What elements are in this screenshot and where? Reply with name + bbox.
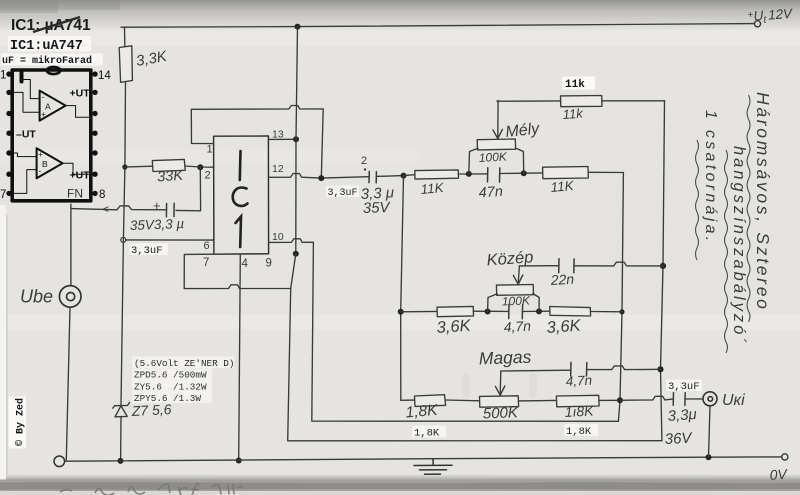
wire Mely pot right lead — [515, 148, 523, 173]
svg-text:35V3,3 µ: 35V3,3 µ — [130, 216, 185, 233]
wire pin1 feedback loop — [191, 106, 323, 179]
svg-text:1,8K: 1,8K — [414, 428, 440, 440]
node Mely pot right — [521, 170, 527, 176]
resistor 3,3K — [119, 27, 132, 167]
underline wavy 2 — [725, 150, 728, 353]
underline wavy 3 — [696, 140, 699, 260]
wire right rail — [661, 101, 665, 441]
svg-text:3,6K: 3,6K — [436, 317, 472, 337]
op-amp A output wire — [66, 106, 91, 118]
resistor 11K Mely left — [415, 170, 459, 179]
node pin12 junction — [318, 175, 324, 181]
wire pin9 stub — [291, 254, 296, 289]
zener note line 2 — [132, 369, 212, 381]
svg-text:3,3uF: 3,3uF — [668, 381, 700, 393]
svg-text:1,8K: 1,8K — [566, 426, 592, 438]
op-amp B output wire — [63, 163, 91, 174]
svg-text:13: 13 — [272, 129, 284, 141]
svg-text:+: + — [38, 150, 43, 159]
node Kozep pot right — [536, 308, 542, 314]
svg-text:7: 7 — [0, 189, 6, 201]
wire pin12 output — [269, 174, 370, 179]
wire 22n branch — [519, 265, 558, 267]
wire 22n to right rail — [574, 262, 663, 266]
printed labels — [9, 77, 703, 449]
wire Mely pot left lead — [469, 148, 478, 174]
wire Ube to bus — [66, 307, 70, 460]
svg-text:Közép: Közép — [486, 248, 534, 269]
terminal Uki — [703, 392, 717, 406]
svg-text:3,3μ: 3,3μ — [667, 406, 697, 425]
bottom edge scribbles — [60, 483, 243, 495]
capacitor 4,7n Kozep — [509, 304, 523, 318]
svg-text:4,7n: 4,7n — [503, 318, 531, 335]
node Magas right — [617, 397, 623, 403]
node junction 33K — [122, 164, 127, 169]
svg-text:11K: 11K — [420, 180, 445, 197]
svg-text:1,8K: 1,8K — [405, 402, 439, 422]
label 11k printed — [562, 77, 595, 90]
wire 33K row to pin2 — [125, 165, 152, 168]
arrowhead Magas wiper — [495, 386, 504, 395]
node Uki bus — [706, 454, 712, 460]
ground symbol — [414, 459, 452, 475]
wire left vertical rail — [121, 167, 125, 405]
svg-text:33K: 33K — [157, 168, 185, 186]
wire Uki to bus — [709, 406, 711, 457]
svg-text:-: - — [42, 93, 45, 102]
capacitor 3,3uF 35V input — [166, 203, 174, 217]
wire Mely row to mid rail — [588, 171, 623, 173]
svg-text:+: + — [153, 198, 161, 213]
svg-text:Ube: Ube — [20, 287, 53, 307]
wire Kozep row seg3 — [522, 310, 549, 312]
svg-text:2: 2 — [361, 155, 367, 167]
zener diode ZF5,6 — [113, 403, 130, 417]
label 1,8K printed right — [564, 424, 598, 436]
wire V+ vertical rail — [296, 27, 298, 254]
wire Kozep pot right lead — [533, 294, 539, 312]
svg-text:22n: 22n — [549, 271, 574, 288]
svg-text:11k: 11k — [565, 79, 585, 91]
package notch — [47, 67, 61, 74]
svg-text:ZPY5.6 /1.3W: ZPY5.6 /1.3W — [134, 393, 201, 404]
label 3,3uF printed output — [666, 380, 702, 392]
faint erased marks — [462, 373, 537, 398]
svg-text:Magas: Magas — [478, 347, 531, 369]
wire Magas row seg1 — [401, 399, 415, 401]
potentiometer 100K Kozep — [496, 285, 533, 296]
node pin13 — [293, 136, 299, 142]
terminal Ube — [59, 286, 81, 308]
svg-text:10: 10 — [272, 231, 284, 243]
svg-text:36V: 36V — [664, 430, 694, 448]
wire pin6 — [126, 239, 214, 241]
node bus left vertical — [118, 458, 124, 464]
pin 1 index bar — [20, 71, 24, 82]
svg-text:(5.6Volt ZE'NER D): (5.6Volt ZE'NER D) — [134, 358, 234, 369]
node 47n right — [657, 366, 663, 372]
op-amp A triangle — [40, 91, 66, 121]
svg-text:4: 4 — [242, 258, 249, 270]
pinout text labels — [0, 70, 111, 202]
IC1 package body — [214, 136, 269, 254]
capacitor 22n — [559, 259, 574, 273]
zener note line 4 — [132, 392, 212, 404]
svg-text:+: + — [41, 110, 46, 119]
arrowhead Mely wiper — [493, 129, 503, 138]
node Kozep pot left — [485, 309, 491, 315]
node top rail / V+ vertical — [295, 24, 301, 30]
capacitor 3,3uF output — [673, 393, 685, 406]
svg-text:2: 2 — [205, 170, 211, 182]
svg-text:–UT: –UT — [16, 129, 36, 141]
op-amp A input wires — [22, 80, 40, 99]
svg-text:35V: 35V — [363, 199, 392, 217]
resistor 1,18K Magas right — [556, 395, 599, 407]
capacitor 3,3uF coupling — [369, 171, 376, 182]
svg-text:B: B — [42, 159, 48, 169]
svg-text:14: 14 — [98, 70, 111, 82]
svg-text:ZY5.6 /1.32W: ZY5.6 /1.32W — [134, 381, 207, 392]
svg-text:1 csatornája.: 1 csatornája. — [702, 110, 719, 245]
strike through uA741 — [33, 17, 80, 32]
svg-text:Mély: Mély — [505, 120, 541, 141]
svg-text:FN: FN — [67, 187, 83, 201]
pin dots left — [6, 71, 11, 196]
svg-text:12: 12 — [272, 163, 284, 175]
svg-text:-: - — [39, 167, 42, 176]
node pin6 branch — [121, 237, 126, 242]
svg-text:100K: 100K — [502, 293, 531, 308]
wire tone left vertical — [401, 176, 404, 401]
node IC bottom right — [293, 251, 299, 257]
svg-text:IC1:uA747: IC1:uA747 — [10, 39, 83, 54]
wire 4,7n to right rail — [587, 366, 661, 370]
resistor 33K — [152, 159, 185, 171]
svg-text:1ı8K: 1ı8K — [564, 402, 594, 420]
svg-text:3,6K: 3,6K — [546, 317, 582, 337]
svg-text:0V: 0V — [769, 466, 789, 483]
wire output cap to Uki — [685, 398, 703, 400]
wire mid rail — [620, 173, 623, 401]
label uF mikroFarad — [1, 54, 103, 66]
svg-text:+UT: +UT — [70, 170, 91, 182]
svg-text:Uкi: Uкi — [722, 392, 745, 409]
svg-text:Háromsávos, Sztereo: Háromsávos, Sztereo — [753, 92, 773, 312]
right side handwritten titles — [696, 92, 774, 353]
resistor 11K Mely right — [543, 167, 589, 179]
wire pin4 ground — [239, 254, 241, 460]
arrowhead Kozep wiper — [513, 275, 522, 284]
node pin4 bus — [236, 458, 242, 464]
wire Magas row seg2 — [445, 399, 479, 402]
svg-text:ZPD5.6 /500mW: ZPD5.6 /500mW — [134, 370, 207, 381]
svg-text:47n: 47n — [478, 184, 503, 202]
pin dots right — [92, 71, 97, 196]
label By Zed — [9, 397, 27, 449]
wire Magas row output — [620, 396, 673, 400]
svg-text:7: 7 — [203, 257, 209, 269]
label 1,8K printed left — [412, 426, 446, 438]
resistor 11k feedback — [561, 96, 603, 107]
label 3,3uF printed coupling — [326, 186, 359, 198]
svg-text:11k: 11k — [562, 106, 584, 122]
label 3,3uF printed pin6 — [129, 244, 168, 256]
wire Ube vertical — [70, 204, 72, 285]
IC1 uA747 pinout diagram — [6, 67, 97, 201]
svg-text:+UT: +UT — [70, 88, 91, 100]
capacitor 4,7n Magas — [571, 362, 587, 376]
node 22n right — [660, 263, 666, 269]
node Kozep row left — [398, 309, 404, 315]
wire Magas row to mid rail node — [599, 399, 620, 401]
zener note line 3 — [132, 380, 212, 392]
svg-text:11K: 11K — [550, 178, 575, 195]
op-amp B triangle — [37, 148, 63, 178]
arrowhead on input wire — [103, 207, 108, 211]
wire feedback top seg — [497, 100, 561, 102]
op-amp B input wires — [12, 153, 36, 157]
dot under small 2 — [364, 168, 366, 170]
wire Mely row seg2 — [458, 173, 487, 175]
wire Magas row seg3 — [519, 399, 557, 402]
svg-text:8: 8 — [99, 189, 105, 201]
svg-text:500K: 500K — [483, 404, 520, 422]
wire Kozep row to mid rail — [591, 311, 623, 313]
terminal 0V — [782, 454, 788, 460]
wire pin10 — [269, 239, 314, 243]
wire Mely row seg3 — [500, 172, 543, 175]
wire input cap left — [71, 206, 167, 210]
wire Mely row seg1 — [404, 174, 415, 177]
wire ground bus — [65, 457, 782, 461]
svg-text:1: 1 — [0, 70, 6, 82]
node pin2 junction — [197, 164, 203, 170]
svg-text:4,7n: 4,7n — [565, 373, 592, 389]
wire Kozep row seg2 — [473, 310, 508, 312]
resistor 3,6K Kozep right — [550, 307, 591, 317]
wire Magas wiper arrow — [499, 371, 502, 395]
op-amp package outline — [12, 70, 91, 201]
svg-text:1: 1 — [207, 144, 213, 156]
underline wavy 1 — [747, 95, 750, 322]
wire 4,7n Magas branch — [501, 369, 571, 372]
wire cap to Mely row — [376, 175, 403, 178]
wire feedback to right rail — [602, 100, 665, 102]
resistor 3,6K Kozep left — [437, 306, 474, 316]
svg-text:© By Zed: © By Zed — [15, 398, 27, 446]
node Mely row left — [401, 173, 407, 179]
potentiometer 100K Mely — [477, 139, 515, 150]
header title block — [1, 17, 103, 67]
wire Kozep row seg1 — [401, 310, 437, 312]
potentiometer 500K Magas — [480, 396, 519, 407]
wire Mely wiper arrow — [497, 101, 499, 138]
wire inner U pin10 net — [312, 242, 620, 421]
zener note line 1 — [132, 357, 234, 369]
resistor 1,8K Magas left — [415, 395, 446, 407]
svg-text:3,3uF: 3,3uF — [131, 245, 163, 257]
wire pin13 — [269, 138, 297, 140]
svg-text:hangszínszabályzó´: hangszínszabályzó´ — [730, 146, 748, 346]
label IC1 inside — [233, 151, 248, 247]
node mid rail Kozep — [619, 309, 624, 314]
svg-text:100K: 100K — [478, 149, 508, 164]
terminal +Ut 12V — [754, 21, 760, 27]
svg-text:9: 9 — [266, 258, 272, 270]
svg-text:3,3uF: 3,3uF — [328, 188, 358, 199]
wire 33K to pin2 dot — [185, 166, 214, 167]
terminal bus left — [54, 456, 65, 467]
wire Kozep pot left lead — [488, 294, 498, 312]
wire top supply rail — [121, 24, 754, 28]
wire pin7/9 net — [184, 254, 662, 441]
label IC1 uA747 — [8, 36, 91, 52]
svg-text:6: 6 — [204, 240, 210, 252]
node Mely pot left — [466, 171, 472, 177]
capacitor 47n Mely — [488, 168, 500, 182]
wire pin2 down to cap — [176, 167, 201, 211]
svg-text:A: A — [45, 102, 51, 112]
wire Kozep wiper arrow — [518, 266, 519, 284]
svg-text:uF = mikroFarad: uF = mikroFarad — [2, 55, 92, 67]
